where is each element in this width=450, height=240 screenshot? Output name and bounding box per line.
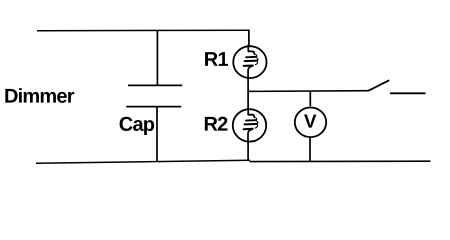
wire R2 bottom stub — [247, 142, 249, 161]
wire voltmeter top stub — [309, 91, 311, 106]
capacitor Cap bottom plate — [126, 106, 181, 108]
switch contact wire — [390, 92, 426, 94]
voltmeter V circle — [295, 108, 326, 138]
wire R2 top stub — [247, 91, 249, 108]
wire top — [37, 29, 250, 32]
wire bottom right — [250, 160, 431, 162]
wire capacitor top stub — [156, 31, 158, 86]
capacitor Cap top plate — [128, 84, 182, 86]
svg-text:Dimmer: Dimmer — [4, 86, 75, 108]
svg-text:R2: R2 — [203, 114, 228, 136]
wire capacitor bottom stub — [156, 107, 158, 162]
switch lever — [368, 80, 389, 91]
wire R1 to node — [247, 79, 249, 92]
lamp R1 — [233, 46, 266, 78]
svg-text:V: V — [304, 112, 317, 133]
lamp R2 — [233, 109, 266, 141]
wire mid node to switch — [248, 90, 368, 93]
svg-text:R1: R1 — [204, 49, 229, 71]
svg-text:Cap: Cap — [119, 114, 155, 136]
wire bottom left — [36, 160, 250, 163]
wire R1 top stub — [248, 30, 250, 46]
wire voltmeter bottom stub — [309, 138, 311, 161]
